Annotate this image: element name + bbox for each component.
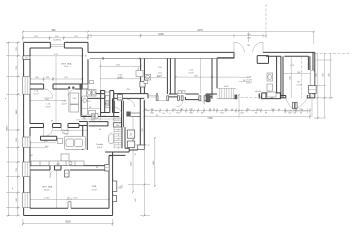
window in right wall (rounded) — [310, 70, 314, 87]
bottom dim line — [23, 219, 113, 226]
svg-text:5,1m²: 5,1m² — [62, 132, 68, 135]
svg-text:OBYT. IZBA: OBYT. IZBA — [61, 63, 72, 66]
right wall of lower block & step — [105, 98, 144, 155]
wing interior walls — [141, 56, 283, 99]
dims right of lower block — [128, 100, 155, 216]
wall between left block and wing — [82, 56, 88, 89]
french door arcs top — [234, 42, 263, 52]
room labels — [42, 63, 302, 192]
svg-text:IZBA: IZBA — [92, 185, 97, 188]
svg-text:960: 960 — [52, 29, 57, 32]
dimension tick slashes — [8, 31, 332, 225]
lower block interior wall y123.5-127.5 — [30, 122, 108, 138]
svg-text:7,5m²: 7,5m² — [64, 65, 69, 68]
svg-text:5,4m²: 5,4m² — [188, 72, 194, 75]
extra dim labels under wing — [145, 109, 293, 117]
top-left block top wall — [24, 42, 88, 56]
svg-text:±0,000: ±0,000 — [255, 91, 262, 93]
svg-text:17,0%: 17,0% — [246, 80, 252, 82]
wing bottom far right — [280, 96, 314, 99]
svg-text:2475: 2475 — [197, 29, 203, 32]
interior wall y165.6-170 — [30, 166, 108, 170]
interior wall y136.3-140.3 — [41, 136, 57, 140]
bottom wall of lower block — [24, 152, 113, 216]
wing bottom wall : courtyard section x148-217 — [156, 94, 217, 102]
svg-text:Chodba: Chodba — [61, 130, 69, 132]
svg-text:5,6m²: 5,6m² — [45, 106, 51, 109]
left dim lines — [6, 42, 20, 216]
left wall with windows — [24, 59, 30, 215]
hall bottom edge — [217, 98, 237, 100]
radiators — [109, 134, 114, 144]
top-right room interior — [301, 56, 303, 98]
dim rows under top wing — [144, 108, 310, 119]
svg-text:7,0m²: 7,0m² — [91, 189, 97, 192]
svg-text:◂: ◂ — [5, 97, 6, 100]
svg-text:5195: 5195 — [158, 33, 164, 36]
svg-text:6,3m²: 6,3m² — [97, 146, 103, 149]
svg-text:4.190: 4.190 — [44, 198, 50, 200]
stairs in hall — [217, 88, 236, 98]
right side dims — [314, 53, 333, 118]
svg-text:Chodba: Chodba — [96, 144, 104, 146]
interior wall y84-89 — [30, 84, 82, 97]
bathroom fixtures cluster — [81, 89, 140, 127]
misc small labels — [29, 65, 295, 169]
svg-text:WC: WC — [297, 82, 301, 84]
svg-text:15,3m²: 15,3m² — [117, 77, 124, 80]
svg-text:WC: WC — [105, 104, 109, 106]
svg-text:OBYT. IZBA: OBYT. IZBA — [42, 186, 53, 189]
svg-text:9630: 9630 — [65, 221, 71, 224]
extra tick slashes dim row — [147, 110, 303, 112]
interior dim lines — [30, 55, 82, 57]
svg-text:1,7m²: 1,7m² — [296, 84, 302, 87]
fixtures narrow room x266-280 — [267, 73, 276, 97]
svg-text:7180: 7180 — [207, 117, 213, 120]
stair lower block — [113, 118, 122, 148]
sink counter room 1.05 — [136, 71, 151, 84]
svg-text:21,6m²: 21,6m² — [44, 189, 50, 192]
double door leaves + arcs bottom right — [292, 102, 294, 108]
svg-text:8,9m²: 8,9m² — [246, 82, 252, 85]
svg-text:4,2m²: 4,2m² — [61, 102, 67, 105]
kitchen counters — [31, 136, 86, 165]
svg-text:1.03(P2): 1.03(P2) — [53, 40, 61, 42]
door in wall x140.6-144.4 — [140, 82, 145, 88]
svg-text:2,1m²: 2,1m² — [33, 92, 39, 95]
svg-text:◂₊: ◂₊ — [12, 187, 14, 190]
kitchen wall — [83, 137, 88, 150]
wing bottom wall : bathroom section x87-148 — [87, 94, 148, 99]
svg-text:5,3m²: 5,3m² — [157, 75, 163, 78]
wall piece right of hall — [262, 93, 281, 99]
right wing top wall — [88, 52, 315, 98]
door arcs lower corridor — [127, 99, 135, 107]
